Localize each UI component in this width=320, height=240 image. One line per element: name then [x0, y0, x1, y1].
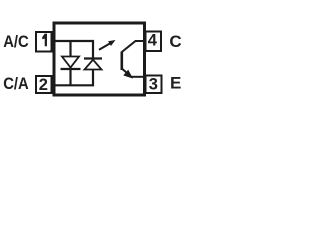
svg-text:4: 4 [148, 32, 158, 50]
svg-text:3: 3 [149, 75, 158, 93]
svg-text:A/C: A/C [3, 32, 29, 51]
svg-text:C: C [169, 32, 181, 51]
svg-text:2: 2 [39, 76, 48, 94]
svg-text:C/A: C/A [3, 74, 29, 93]
svg-text:E: E [170, 74, 181, 93]
